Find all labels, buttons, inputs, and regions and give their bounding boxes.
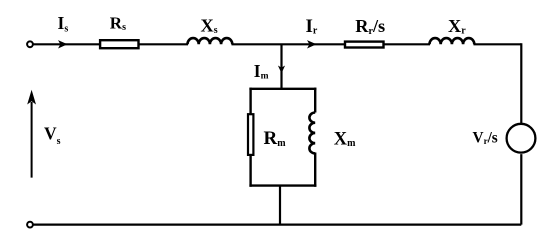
svg-text:Xr: Xr xyxy=(448,16,466,37)
svg-text:Xm: Xm xyxy=(334,129,356,149)
svg-text:Rm: Rm xyxy=(264,128,287,149)
svg-text:Rs: Rs xyxy=(110,13,126,33)
svg-text:Vs: Vs xyxy=(44,124,61,147)
svg-text:Xs: Xs xyxy=(201,16,218,37)
svg-text:Vr/s: Vr/s xyxy=(473,130,498,147)
svg-text:Is: Is xyxy=(58,13,69,34)
svg-text:Rr/s: Rr/s xyxy=(355,16,385,37)
svg-text:Ir: Ir xyxy=(306,16,318,37)
svg-text:Im: Im xyxy=(254,61,269,82)
